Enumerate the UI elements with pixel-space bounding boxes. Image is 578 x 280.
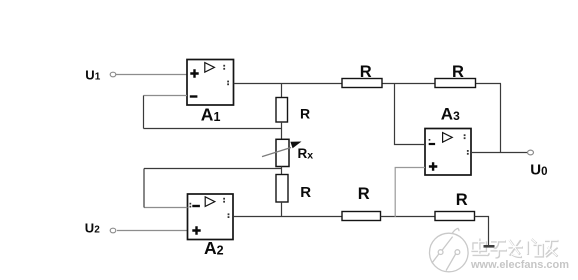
wire A1 feedback horizontal [144,128,282,130]
svg-text:U0: U0 [530,162,547,179]
resistor R middle-upper [276,98,288,123]
wire chain bottom [281,202,283,217]
wire A2 output [233,216,342,218]
svg-text:R: R [300,184,311,201]
svg-text:Rx: Rx [298,146,314,161]
wire right feedback vertical [500,84,502,153]
svg-text:U1: U1 [85,67,100,82]
wire A1 output [234,83,342,85]
svg-text:U2: U2 [85,220,100,235]
resistor R middle-lower [276,175,288,203]
svg-text:R: R [456,191,468,209]
wire A1 feedback vertical [143,96,145,129]
wire A3 output [471,152,528,154]
wire A3 inverting branch [395,84,426,145]
wire bottom middle segment [381,216,436,218]
wire chain between R and Rx [281,122,283,139]
terminal U1 [110,72,116,77]
resistor R top-right [435,79,476,88]
op-amp A2 [188,194,234,240]
watermark logo circle [430,228,469,271]
svg-text:R: R [360,63,372,81]
wire U1 input [116,74,187,76]
ground tick [484,245,495,248]
svg-text:R: R [452,63,464,81]
svg-text:www.elecfans.com: www.elecfans.com [470,259,569,271]
resistor R bottom-left [342,212,381,221]
svg-text:A1: A1 [201,104,221,124]
wire A2 feedback stub [144,207,188,209]
svg-text:R: R [300,106,310,122]
watermark text line 1 (stylized) [473,239,559,258]
terminal U2 [110,228,116,233]
svg-text:R: R [358,185,370,203]
svg-text:A3: A3 [441,105,460,124]
wire top right segment [476,83,502,85]
wire bottom right segment [475,217,489,246]
wire A3 non-inverting branch [395,168,425,218]
op-amp A3 [425,129,471,176]
wire A1 feedback stub [144,95,188,97]
watermark text line 2 [470,259,570,272]
svg-text:A2: A2 [204,238,224,258]
op-amp A1 [187,60,234,106]
Rx arrow [262,142,302,157]
wire chain between Rx and lower R [281,167,283,175]
wire A2 feedback horizontal [144,168,282,170]
wire A2 feedback vertical [143,169,145,208]
resistor R bottom-right [435,212,475,221]
wire top middle segment [382,83,435,85]
wire U2 input [117,230,188,232]
terminal U0 [528,150,534,155]
wire chain top [281,84,283,98]
resistor R top-left [342,79,382,88]
resistor Rx (variable) [276,139,289,166]
